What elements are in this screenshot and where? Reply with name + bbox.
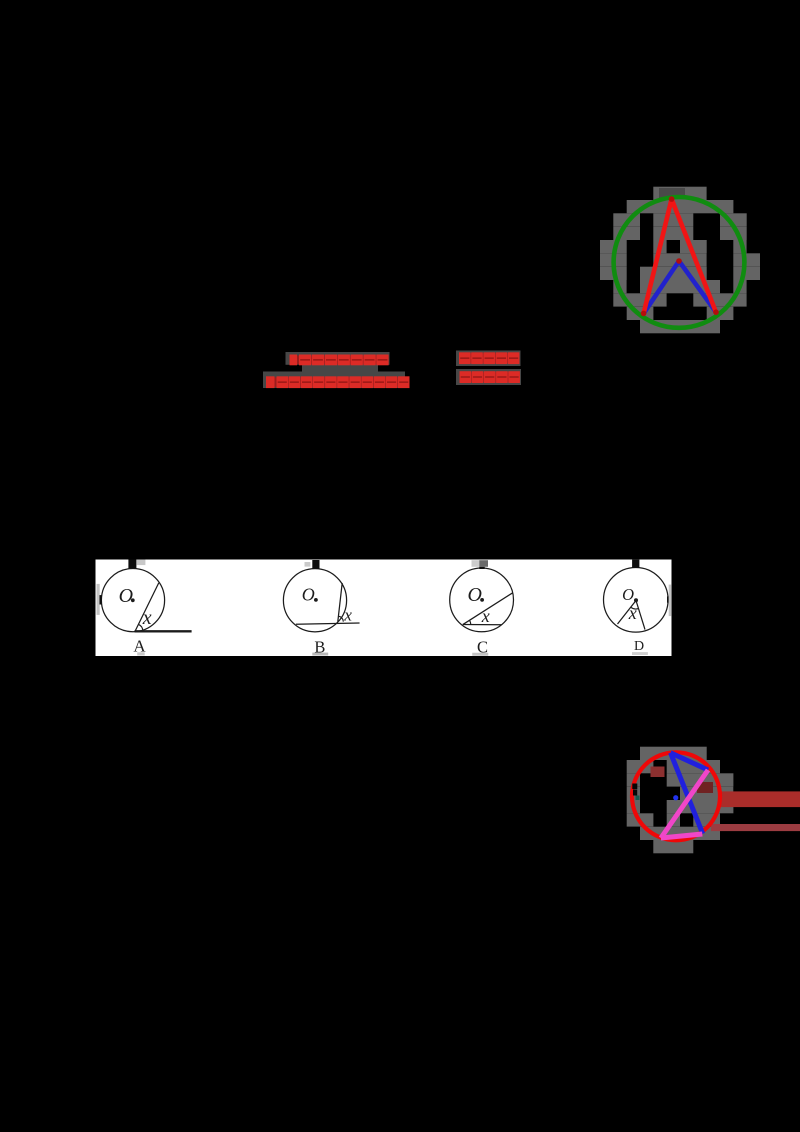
right red text line 2: 顶点在圆上 bbox=[460, 371, 520, 383]
blue central angle left side bbox=[644, 261, 679, 313]
gray background of left red text bbox=[286, 352, 390, 365]
C top gray marks bbox=[472, 560, 480, 567]
svg-text:O: O bbox=[622, 585, 634, 604]
vertex dot left foot bbox=[641, 311, 647, 317]
left red text line 2: 2.两个角都是与圆有关的角 bbox=[266, 376, 410, 388]
magenta chord upper-right to bottom-left bbox=[661, 770, 708, 838]
black breaks on circle left edge bbox=[632, 784, 637, 790]
svg-text:x: x bbox=[142, 607, 152, 629]
A gray underline bbox=[137, 652, 145, 655]
teal speck bbox=[636, 796, 640, 801]
vertex dot right foot bbox=[713, 309, 719, 315]
jpeg-artifact gray halo of bottom circle figure bbox=[627, 747, 734, 854]
option C circle bbox=[450, 568, 514, 632]
svg-text:O: O bbox=[302, 584, 315, 604]
B angle x arc bbox=[338, 616, 343, 621]
A top gray mark bbox=[136, 560, 145, 566]
C gray underline bbox=[472, 653, 488, 656]
D central angle arc bbox=[631, 607, 639, 609]
svg-text:x: x bbox=[343, 606, 352, 625]
C angle x arc bbox=[470, 620, 471, 624]
blue center dot bbox=[673, 795, 678, 800]
option A circle bbox=[101, 569, 164, 632]
A angle x arc bbox=[139, 625, 143, 631]
A top black marker bbox=[128, 560, 136, 569]
C bottom chord bbox=[463, 624, 502, 626]
A center dot bbox=[131, 598, 135, 602]
D radius right bbox=[636, 601, 645, 630]
svg-text:x: x bbox=[628, 603, 637, 623]
B secant line bbox=[296, 623, 360, 624]
jpeg-artifact gray halo of top circle figure bbox=[600, 187, 760, 334]
B chord bbox=[338, 583, 342, 622]
blue central angle right side bbox=[679, 261, 716, 312]
A chord bbox=[135, 583, 158, 631]
green circle O (top figure) bbox=[614, 197, 745, 328]
svg-text:O: O bbox=[119, 585, 133, 607]
dark red block right inside circle bbox=[697, 782, 713, 793]
red inscribed angle left side bbox=[644, 199, 672, 313]
D right gray bar bbox=[669, 585, 672, 617]
A tangent line bbox=[135, 630, 192, 632]
option B circle bbox=[283, 569, 346, 632]
dark red band 1 bbox=[719, 791, 800, 807]
D top black marker bbox=[632, 560, 639, 568]
dark marks above apex bbox=[659, 188, 685, 198]
gray background of right red text bbox=[456, 351, 521, 367]
C long chord bbox=[463, 593, 513, 625]
B top gray mark bbox=[305, 562, 311, 567]
dark red band 2 bbox=[711, 824, 800, 831]
option D circle bbox=[604, 568, 669, 633]
D gray underline bbox=[632, 652, 648, 655]
B center dot bbox=[314, 598, 318, 602]
red inscribed angle right side bbox=[672, 199, 716, 312]
svg-text:x: x bbox=[481, 606, 490, 626]
left red text line 1: 1.两边都与圆相交 bbox=[290, 355, 389, 366]
magenta chord bottom-left to bottom-right bbox=[661, 834, 702, 838]
blue chord top to upper-right bbox=[671, 753, 709, 770]
D right black notch bbox=[667, 596, 669, 602]
center dot O bbox=[676, 258, 682, 264]
D radius left bbox=[618, 601, 637, 625]
right red text line 1: 顶点在圆心 bbox=[459, 352, 519, 364]
A left black notch bbox=[100, 595, 102, 604]
svg-text:D: D bbox=[634, 639, 644, 654]
vertex dot apex bbox=[669, 196, 675, 202]
C center dot bbox=[480, 598, 484, 602]
B top black marker bbox=[312, 560, 319, 569]
white answer strip bbox=[96, 560, 672, 657]
A left gray bar bbox=[97, 584, 100, 615]
D center dot bbox=[634, 598, 638, 602]
blue chord top to bottom-right bbox=[671, 753, 703, 834]
dark red block upper-left inside circle bbox=[651, 767, 665, 778]
svg-text:O: O bbox=[467, 584, 481, 606]
red circle (bottom figure) bbox=[632, 752, 720, 840]
B gray underline bbox=[312, 653, 328, 656]
